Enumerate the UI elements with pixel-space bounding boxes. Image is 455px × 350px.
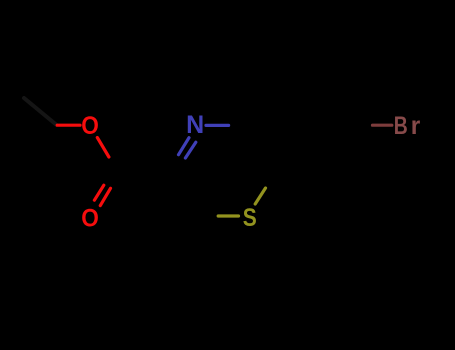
svg-text:O: O [81,205,99,233]
wire N=C3 double bond outer line (blue half) [185,142,195,158]
wire C=O double bond outer line (red half) [100,188,110,205]
wire S-C8a bond (olive half) [255,188,265,204]
wire C2-S bond (olive half) [218,214,238,217]
wire methyl-O bond (red half) [57,124,80,127]
svg-text:S: S [243,204,257,232]
wire C=O double bond inner line (red half) [94,185,103,200]
svg-text:B: B [394,112,408,140]
svg-text:r: r [411,112,421,140]
wire faint methyl carbon half-bond [24,98,56,125]
svg-text:N: N [186,111,204,139]
wire N-C4a bond (blue half) [206,124,229,127]
wire O1-carbonyl bond (red half) [97,138,109,158]
wire N=C3 double bond inner line (blue half) [179,138,190,155]
svg-text:O: O [81,112,99,140]
wire C7-Br bond (maroon half) [373,124,392,127]
